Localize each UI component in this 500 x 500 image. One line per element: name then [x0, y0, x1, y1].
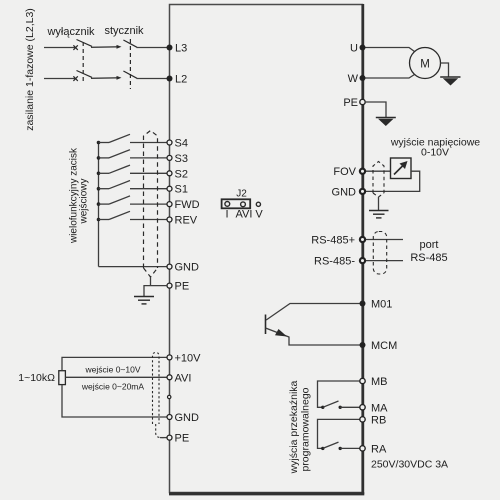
- terminal GND analog: [167, 415, 172, 420]
- svg-text:GND: GND: [175, 412, 200, 424]
- shield 1 drain wire: [150, 277, 152, 286]
- terminal GND mid: [167, 264, 172, 269]
- svg-text:FWD: FWD: [175, 199, 200, 211]
- wire +10V to pot: [62, 357, 167, 370]
- switch REV: [97, 211, 167, 221]
- svg-text:1~10kΩ: 1~10kΩ: [18, 372, 55, 384]
- terminal +10V: [167, 355, 172, 360]
- svg-text:PE: PE: [175, 433, 190, 445]
- terminal AVI: [167, 375, 172, 380]
- svg-text:S4: S4: [175, 138, 188, 150]
- svg-text:M: M: [420, 59, 430, 71]
- relay contact 1 wire MA: [340, 406, 362, 408]
- wire meter to GND: [365, 171, 420, 191]
- terminal S4: [167, 140, 172, 145]
- svg-text:W: W: [348, 73, 359, 85]
- wire FOV to meter: [363, 170, 391, 172]
- contactor K1 pole 2 arrow tip: [117, 76, 122, 80]
- ground (IEC) below PE mid: [134, 297, 154, 304]
- svg-text:RS-485: RS-485: [410, 252, 447, 264]
- terminal S3: [167, 155, 172, 160]
- relay contact 2 pole dot: [321, 447, 324, 450]
- ground (chassis) at PE: [376, 118, 396, 127]
- transistor Q1 body: [265, 315, 267, 335]
- wire RS-485-: [363, 260, 404, 262]
- wire motor to ground: [441, 63, 449, 78]
- switch FWD: [97, 196, 167, 206]
- svg-text:PE: PE: [175, 281, 190, 293]
- svg-text:wyjścia przekaźnika: wyjścia przekaźnika: [288, 380, 300, 474]
- wire PE stub: [160, 437, 167, 439]
- svg-text:MCM: MCM: [371, 340, 397, 352]
- wire U to motor: [363, 48, 415, 52]
- svg-text:I: I: [225, 209, 228, 221]
- switch S2: [97, 165, 167, 175]
- relay contact 2 blade: [323, 442, 339, 448]
- terminal RS-485-: [360, 258, 365, 263]
- input switch bus: [98, 143, 100, 267]
- jumper J2 block: [222, 199, 251, 208]
- switch S4: [97, 134, 167, 144]
- shield 2 (dotted, analog input): [153, 353, 160, 425]
- wire L2 to terminal: [137, 78, 170, 80]
- wire RS-485+: [363, 239, 404, 241]
- svg-text:GND: GND: [175, 262, 200, 274]
- terminal L3: [167, 45, 173, 51]
- wire PE mid to ground: [144, 286, 167, 297]
- contactor K1 pole 1 arrow tip: [117, 45, 122, 49]
- svg-text:+10V: +10V: [175, 352, 202, 364]
- terminal S1: [167, 186, 172, 191]
- relay contact 1 blade: [323, 401, 339, 407]
- shield 3 (dashed, FOV output): [373, 162, 384, 198]
- motor M1: [410, 48, 441, 79]
- wire L3 to terminal: [137, 47, 170, 49]
- svg-text:RA: RA: [371, 443, 387, 455]
- relay contact 2 contact dot: [339, 447, 342, 450]
- wire L2 mid: [91, 77, 118, 80]
- wire M01 to transistor: [266, 304, 362, 321]
- shield 2 drain hook to PE: [156, 424, 164, 438]
- terminal U: [360, 45, 366, 51]
- terminal PE analog: [167, 435, 172, 440]
- wire bus to GND: [99, 266, 168, 268]
- svg-text:L2: L2: [175, 74, 187, 86]
- shield 1 (dashed, digital inputs): [144, 131, 158, 278]
- svg-text:S2: S2: [175, 168, 188, 180]
- breaker Q1 pole 1 (X contact): [73, 40, 92, 50]
- svg-text:wejściowy: wejściowy: [79, 178, 90, 224]
- relay contact 2 wire RB: [318, 419, 363, 448]
- svg-text:AVI: AVI: [175, 372, 192, 384]
- svg-text:GND: GND: [332, 186, 357, 198]
- terminal FOV: [360, 169, 365, 174]
- terminal RB: [360, 417, 365, 422]
- svg-text:MA: MA: [371, 402, 388, 414]
- breaker Q1 linkage (dashed): [82, 42, 84, 84]
- svg-text:RB: RB: [371, 414, 386, 426]
- svg-text:J2: J2: [236, 189, 247, 200]
- potentiometer R1 body: [59, 371, 66, 385]
- wire W to motor: [363, 75, 415, 79]
- jumper J2 pin AVI: [241, 202, 246, 207]
- jumper J2 pin I: [225, 202, 230, 207]
- wire emitter to MCM: [289, 337, 363, 346]
- wire L3 mid: [91, 46, 118, 49]
- svg-text:REV: REV: [175, 215, 198, 227]
- svg-text:S3: S3: [175, 153, 188, 165]
- wire pot wiper to AVI: [65, 376, 167, 378]
- transistor Q1 emitter arrow: [275, 329, 287, 337]
- svg-text:zasilanie 1-fazowe (L2,L3): zasilanie 1-fazowe (L2,L3): [24, 8, 36, 131]
- svg-text:RS-485-: RS-485-: [314, 256, 355, 268]
- terminal PE mid: [167, 283, 172, 288]
- inverter main box U1: [169, 4, 364, 494]
- svg-text:FOV: FOV: [333, 166, 356, 178]
- terminal PE top right: [360, 99, 365, 104]
- switch S1: [97, 181, 167, 191]
- terminal ACI (unlabeled): [168, 395, 171, 398]
- terminal W: [360, 75, 366, 81]
- terminal RA: [360, 446, 365, 451]
- contactor K1 pole 1 blade: [123, 40, 137, 47]
- terminal RS-485+: [360, 237, 365, 242]
- svg-text:0-10V: 0-10V: [421, 147, 449, 159]
- terminal MB: [360, 378, 365, 383]
- contactor K1 pole 2 blade: [123, 71, 137, 78]
- svg-text:stycznik: stycznik: [104, 25, 144, 37]
- svg-text:S1: S1: [175, 184, 188, 196]
- wire L2 input: [44, 78, 75, 80]
- svg-text:wejście 0~10V: wejście 0~10V: [84, 365, 140, 375]
- svg-text:wejście 0~20mA: wejście 0~20mA: [81, 382, 144, 392]
- svg-text:RS-485+: RS-485+: [311, 235, 355, 247]
- svg-text:programowalnego: programowalnego: [300, 387, 312, 471]
- shield 4 (dashed, RS-485): [373, 232, 386, 275]
- terminal L2: [167, 76, 173, 82]
- terminal REV: [167, 217, 172, 222]
- terminal GND right: [360, 189, 365, 194]
- transistor Q1 emitter: [266, 328, 290, 337]
- wire PE to ground: [365, 102, 386, 118]
- svg-text:M01: M01: [371, 299, 392, 311]
- terminal M01: [360, 301, 366, 307]
- wire pot to GND: [62, 385, 167, 417]
- terminal FWD: [167, 202, 172, 207]
- svg-text:L3: L3: [175, 43, 187, 55]
- svg-text:250V/30VDC 3A: 250V/30VDC 3A: [371, 459, 448, 471]
- relay contact 1 wire MB: [318, 381, 363, 407]
- svg-text:port: port: [420, 239, 439, 251]
- meter P1 (voltmeter box with arrow): [391, 158, 412, 179]
- terminal MA: [360, 405, 365, 410]
- relay contact 1 contact dot: [339, 406, 342, 409]
- shield 3 drain wire: [378, 197, 380, 210]
- jumper J2 pin V: [256, 202, 260, 206]
- svg-text:V: V: [255, 209, 263, 221]
- ground (IEC) below shield 3: [369, 211, 389, 218]
- wire L3 input: [44, 47, 75, 49]
- ground (chassis) at motor: [440, 77, 460, 86]
- breaker Q1 pole 2 (X contact): [73, 71, 92, 81]
- svg-text:MB: MB: [371, 376, 388, 388]
- svg-text:wyłącznik: wyłącznik: [46, 26, 95, 38]
- switch S3: [97, 150, 167, 160]
- relay contact 2 wire RA: [340, 447, 362, 449]
- svg-text:PE: PE: [343, 97, 358, 109]
- terminal MCM: [360, 342, 366, 348]
- contactor K1 linkage (dashed): [129, 39, 131, 89]
- svg-text:AVI: AVI: [236, 209, 253, 221]
- relay contact 1 pole dot: [321, 406, 324, 409]
- svg-text:U: U: [350, 43, 358, 55]
- terminal S2: [167, 171, 172, 176]
